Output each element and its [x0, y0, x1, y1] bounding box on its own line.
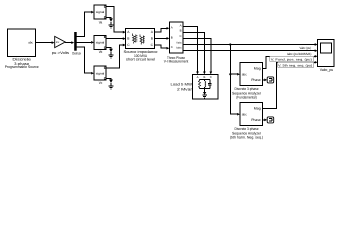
- svg-text:Vabc: Vabc: [176, 42, 182, 45]
- block: Discrete 3-phase Sequence Analyzer (5th harm. Neg. seq.): [230, 103, 263, 140]
- svg-text:Vabc (pu): Vabc (pu): [300, 46, 312, 50]
- svg-text:signal: signal: [96, 10, 105, 14]
- controlled voltage source Vb: [94, 35, 106, 54]
- svg-text:C: C: [210, 75, 212, 79]
- block: Source impedance 100 MVA short circuit level: [124, 29, 158, 62]
- svg-text:B: B: [171, 35, 173, 39]
- vertical branch wire down to analyzers: [230, 45, 237, 115]
- svg-text:C: C: [171, 45, 173, 49]
- wire Vc+ to impedance C: [106, 45, 123, 68]
- svg-text:short circuit level: short circuit level: [126, 58, 155, 62]
- junction node on Vabc wire: [229, 43, 231, 45]
- svg-text:B: B: [203, 75, 205, 79]
- svg-text:A: A: [197, 75, 199, 79]
- svg-text:Mag: Mag: [254, 67, 261, 71]
- svg-text:Load 5 MW: Load 5 MW: [171, 83, 193, 87]
- svg-text:(Fundamental): (Fundamental): [236, 96, 257, 100]
- svg-text:A: A: [180, 24, 182, 28]
- wires impedance -> V-I measurement: [155, 28, 167, 32]
- svg-text:Vc: Vc: [99, 81, 103, 85]
- block: Load 5 MW 2 Mvar: [171, 75, 219, 100]
- svg-text:Vabc_pu: Vabc_pu: [320, 68, 334, 72]
- terminator T1: [267, 77, 274, 83]
- block: Discrete 3-phase Programmable Source: [5, 29, 39, 69]
- controlled voltage source Vc: [94, 66, 106, 85]
- demux out3 wire to Vc: [77, 47, 92, 73]
- block: Discrete 3-phase Sequence Analyzer (Fundamental): [232, 63, 263, 100]
- scope block Vabc_pu: [318, 40, 335, 73]
- boxed label V. Fund. pos. seq. (pu): [270, 56, 314, 61]
- svg-text:Demux: Demux: [72, 51, 81, 55]
- wire analyzer1 Mag -> scope in3: [263, 56, 315, 68]
- svg-text:Va: Va: [99, 20, 103, 24]
- svg-text:Iabc (pu/100MVA): Iabc (pu/100MVA): [287, 52, 312, 56]
- wire analyzer1 Phase -> terminator1: [263, 79, 265, 81]
- wire Vabc signal to scope in1: [183, 44, 315, 46]
- svg-text:2 Mvar: 2 Mvar: [177, 87, 193, 91]
- svg-text:Mag: Mag: [254, 107, 261, 111]
- ground (Va): [109, 18, 114, 27]
- controlled voltage source Va: [94, 5, 106, 24]
- demux out2 wire to Vb: [77, 41, 92, 43]
- svg-text:abc: abc: [242, 73, 247, 77]
- svg-text:Vb: Vb: [99, 50, 103, 54]
- svg-text:signal: signal: [96, 71, 105, 75]
- svg-text:pu->Volts: pu->Volts: [52, 51, 69, 55]
- svg-text:signal: signal: [96, 41, 105, 45]
- junction node to analyzer1: [229, 73, 231, 75]
- svg-text:C: C: [180, 34, 182, 38]
- svg-text:Iabc: Iabc: [176, 47, 182, 50]
- svg-text:abc: abc: [28, 41, 33, 45]
- wire gain -> demux: [65, 42, 71, 44]
- terminator T2: [267, 117, 274, 123]
- svg-text:V. 5th neg. seq. (pu): V. 5th neg. seq. (pu): [278, 63, 312, 67]
- svg-text:Programmable Source: Programmable Source: [5, 65, 39, 69]
- svg-text:abc: abc: [242, 113, 247, 117]
- wire Va- to ground: [106, 17, 111, 18]
- ground (Vc): [109, 80, 114, 89]
- wires V-I -> load (A,B,C turn down): [183, 26, 198, 71]
- branch wire to analyzer1 abc: [230, 73, 237, 75]
- svg-text:Phase: Phase: [251, 78, 261, 82]
- wire analyzer2 Phase -> terminator2: [263, 119, 265, 121]
- wire Iabc signal to scope in2: [183, 50, 315, 52]
- ground (Vb): [109, 49, 114, 58]
- svg-text:V. Fund. pos. seq. (pu): V. Fund. pos. seq. (pu): [271, 57, 312, 61]
- wire Vb- to ground: [106, 48, 111, 49]
- svg-text:A: A: [171, 26, 173, 30]
- gain block pu->Volts: [52, 36, 69, 55]
- demux out1 wire to Va: [77, 12, 92, 36]
- demux bar: [72, 32, 81, 55]
- wire source abc -> gain: [36, 42, 53, 44]
- svg-text:B: B: [180, 29, 182, 33]
- wire Vc- to ground: [106, 79, 111, 80]
- svg-text:(5th harm. Neg. seq.): (5th harm. Neg. seq.): [230, 136, 263, 140]
- svg-text:Phase: Phase: [251, 118, 261, 122]
- wire Vb+ to impedance B: [107, 37, 123, 39]
- block: Three-Phase V-I Measurement: [164, 22, 189, 64]
- wire analyzer2 Mag -> scope in4: [263, 62, 315, 108]
- wire Va+ to impedance A: [106, 7, 123, 32]
- boxed label V. 5th neg. seq. (pu): [278, 62, 314, 67]
- svg-text:V-I Measurement: V-I Measurement: [164, 60, 189, 64]
